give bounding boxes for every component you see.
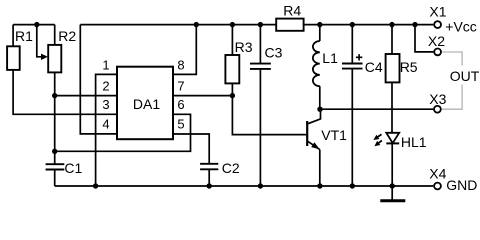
svg-text:L1: L1 [322,50,338,66]
wire pin 5 to C2 [173,134,209,164]
wire C3 top lead [259,25,261,64]
wire L1 top lead [319,25,321,41]
wire X2 branch [415,25,433,52]
OUT bracket lower [442,85,462,110]
op-amp U1 : IC DA1 body [117,67,173,140]
node C4 rail junction [350,22,355,27]
node R5 rail junction [389,22,394,27]
wire pin 1 to ground bus [96,74,117,186]
wire C1 bottom lead [54,170,56,187]
node VT1 emitter ground junction [317,183,322,188]
svg-text:HL1: HL1 [401,134,427,150]
node pin1 bus ground junction [93,183,98,188]
HL1 light arrow upper [378,134,382,137]
resistor R4 [276,19,303,31]
wire pin 2 [55,95,117,97]
capacitor C4 polarity plus [356,54,362,60]
svg-text:1: 1 [102,58,109,73]
led HL1 cathode bar [386,142,399,144]
svg-text:R2: R2 [58,28,76,44]
capacitor C1 [46,164,65,169]
resistor R5 [386,54,400,82]
node L1-collector-X3 junction [317,107,322,112]
wire main top rail left of R4 [80,24,276,26]
node X2 rail junction [412,22,417,27]
wire L1 bottom lead [319,86,321,109]
wire left top rail R1-R2 [13,24,55,26]
terminal X2 [434,49,441,56]
wiper arrowhead of R2 [41,54,48,60]
wire Vcc drop to pin 4 [80,25,117,134]
svg-text:GND: GND [446,177,477,193]
wire R2 top lead [54,25,56,45]
ground symbol [380,199,405,202]
node C3 ground junction [258,183,263,188]
wire ground rail [55,185,434,187]
wire R3 top lead [231,25,233,55]
svg-text:C2: C2 [222,160,240,176]
svg-text:R1: R1 [15,28,33,44]
capacitor C2 [200,164,218,170]
wire R3 bottom lead [231,83,233,95]
node R3-pin7 junction [230,93,235,98]
wire R2 bottom lead [54,72,56,95]
node pin8 rail junction [194,22,199,27]
node L1 rail junction [317,22,322,27]
svg-text:C3: C3 [265,45,283,61]
transistor VT1 base bar [306,121,308,146]
wire pin 8 to top rail [173,25,196,75]
svg-text:+Vcc: +Vcc [445,19,477,35]
wire C4 top lead [351,25,353,64]
transistor Q1 : VT1 collector lead [308,109,321,124]
wire pin 7 to R3 [173,95,232,97]
transistor VT1 emitter [308,141,320,149]
node R3 rail junction [230,22,235,27]
svg-text:5: 5 [177,117,184,132]
HL1 light arrow lower [378,140,382,143]
wire X3 output [320,108,433,110]
wire R1 bottom to pin 3 [13,70,117,114]
node C2 ground junction [207,183,212,188]
svg-text:R3: R3 [235,39,253,55]
wire C2 bottom lead [208,169,210,186]
wire C3 bottom to ground [259,69,261,186]
svg-text:X2: X2 [428,33,445,49]
node C3 rail junction [258,22,263,27]
inductor L1 [313,41,320,86]
node R2-pin2 junction [52,93,57,98]
svg-text:C1: C1 [64,160,82,176]
svg-text:8: 8 [177,58,184,73]
wire R2 wiper [37,25,41,57]
wire R5 bottom to HL1 [391,82,393,132]
capacitor C3 [250,64,271,69]
svg-text:C4: C4 [365,59,383,75]
led HL1 triangle [386,133,399,143]
wire HL1 cathode to ground [391,143,393,199]
resistor R1 [7,46,20,70]
wire R1 top lead [12,25,14,47]
svg-text:4: 4 [102,117,109,132]
svg-text:3: 3 [102,97,109,112]
VT1 emitter arrowhead [311,142,320,149]
terminal X4 [434,183,441,190]
wire R2 column down to C1 [54,96,56,165]
potentiometer R2 [48,45,61,73]
node C4 ground junction [350,183,355,188]
svg-text:VT1: VT1 [321,127,347,143]
wire C4 bottom to ground [351,69,353,186]
node HL1 ground junction [390,183,395,188]
capacitor C4 [342,64,363,69]
svg-text:R5: R5 [400,59,418,75]
terminal X3 [434,106,441,113]
wire VT1 emitter to ground [319,150,321,186]
svg-text:X4: X4 [429,166,446,182]
OUT bracket upper [442,52,462,66]
node C1 top junction [52,149,57,154]
svg-text:6: 6 [177,97,184,112]
svg-text:OUT: OUT [450,68,480,84]
wire main top rail right of R4 [304,24,434,26]
svg-text:R4: R4 [283,3,301,19]
resistor R3 [225,55,239,83]
node wiper junction [34,22,39,27]
svg-text:DA1: DA1 [133,96,160,112]
svg-text:7: 7 [177,79,184,94]
wire R5 top lead [391,25,393,54]
svg-text:X3: X3 [429,91,446,107]
wire base of VT1 [232,96,306,135]
terminal X1 [434,21,441,28]
svg-text:X1: X1 [429,4,446,20]
wire pin 6 return to C1 [55,114,191,151]
svg-text:2: 2 [102,79,109,94]
